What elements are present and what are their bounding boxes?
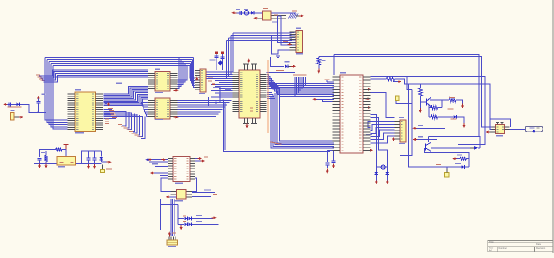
svg-text:Revision: Revision	[536, 247, 546, 250]
svg-text:Title: Title	[489, 240, 494, 244]
svg-text:Date: Date	[536, 243, 542, 246]
svg-text:Number: Number	[499, 247, 508, 250]
